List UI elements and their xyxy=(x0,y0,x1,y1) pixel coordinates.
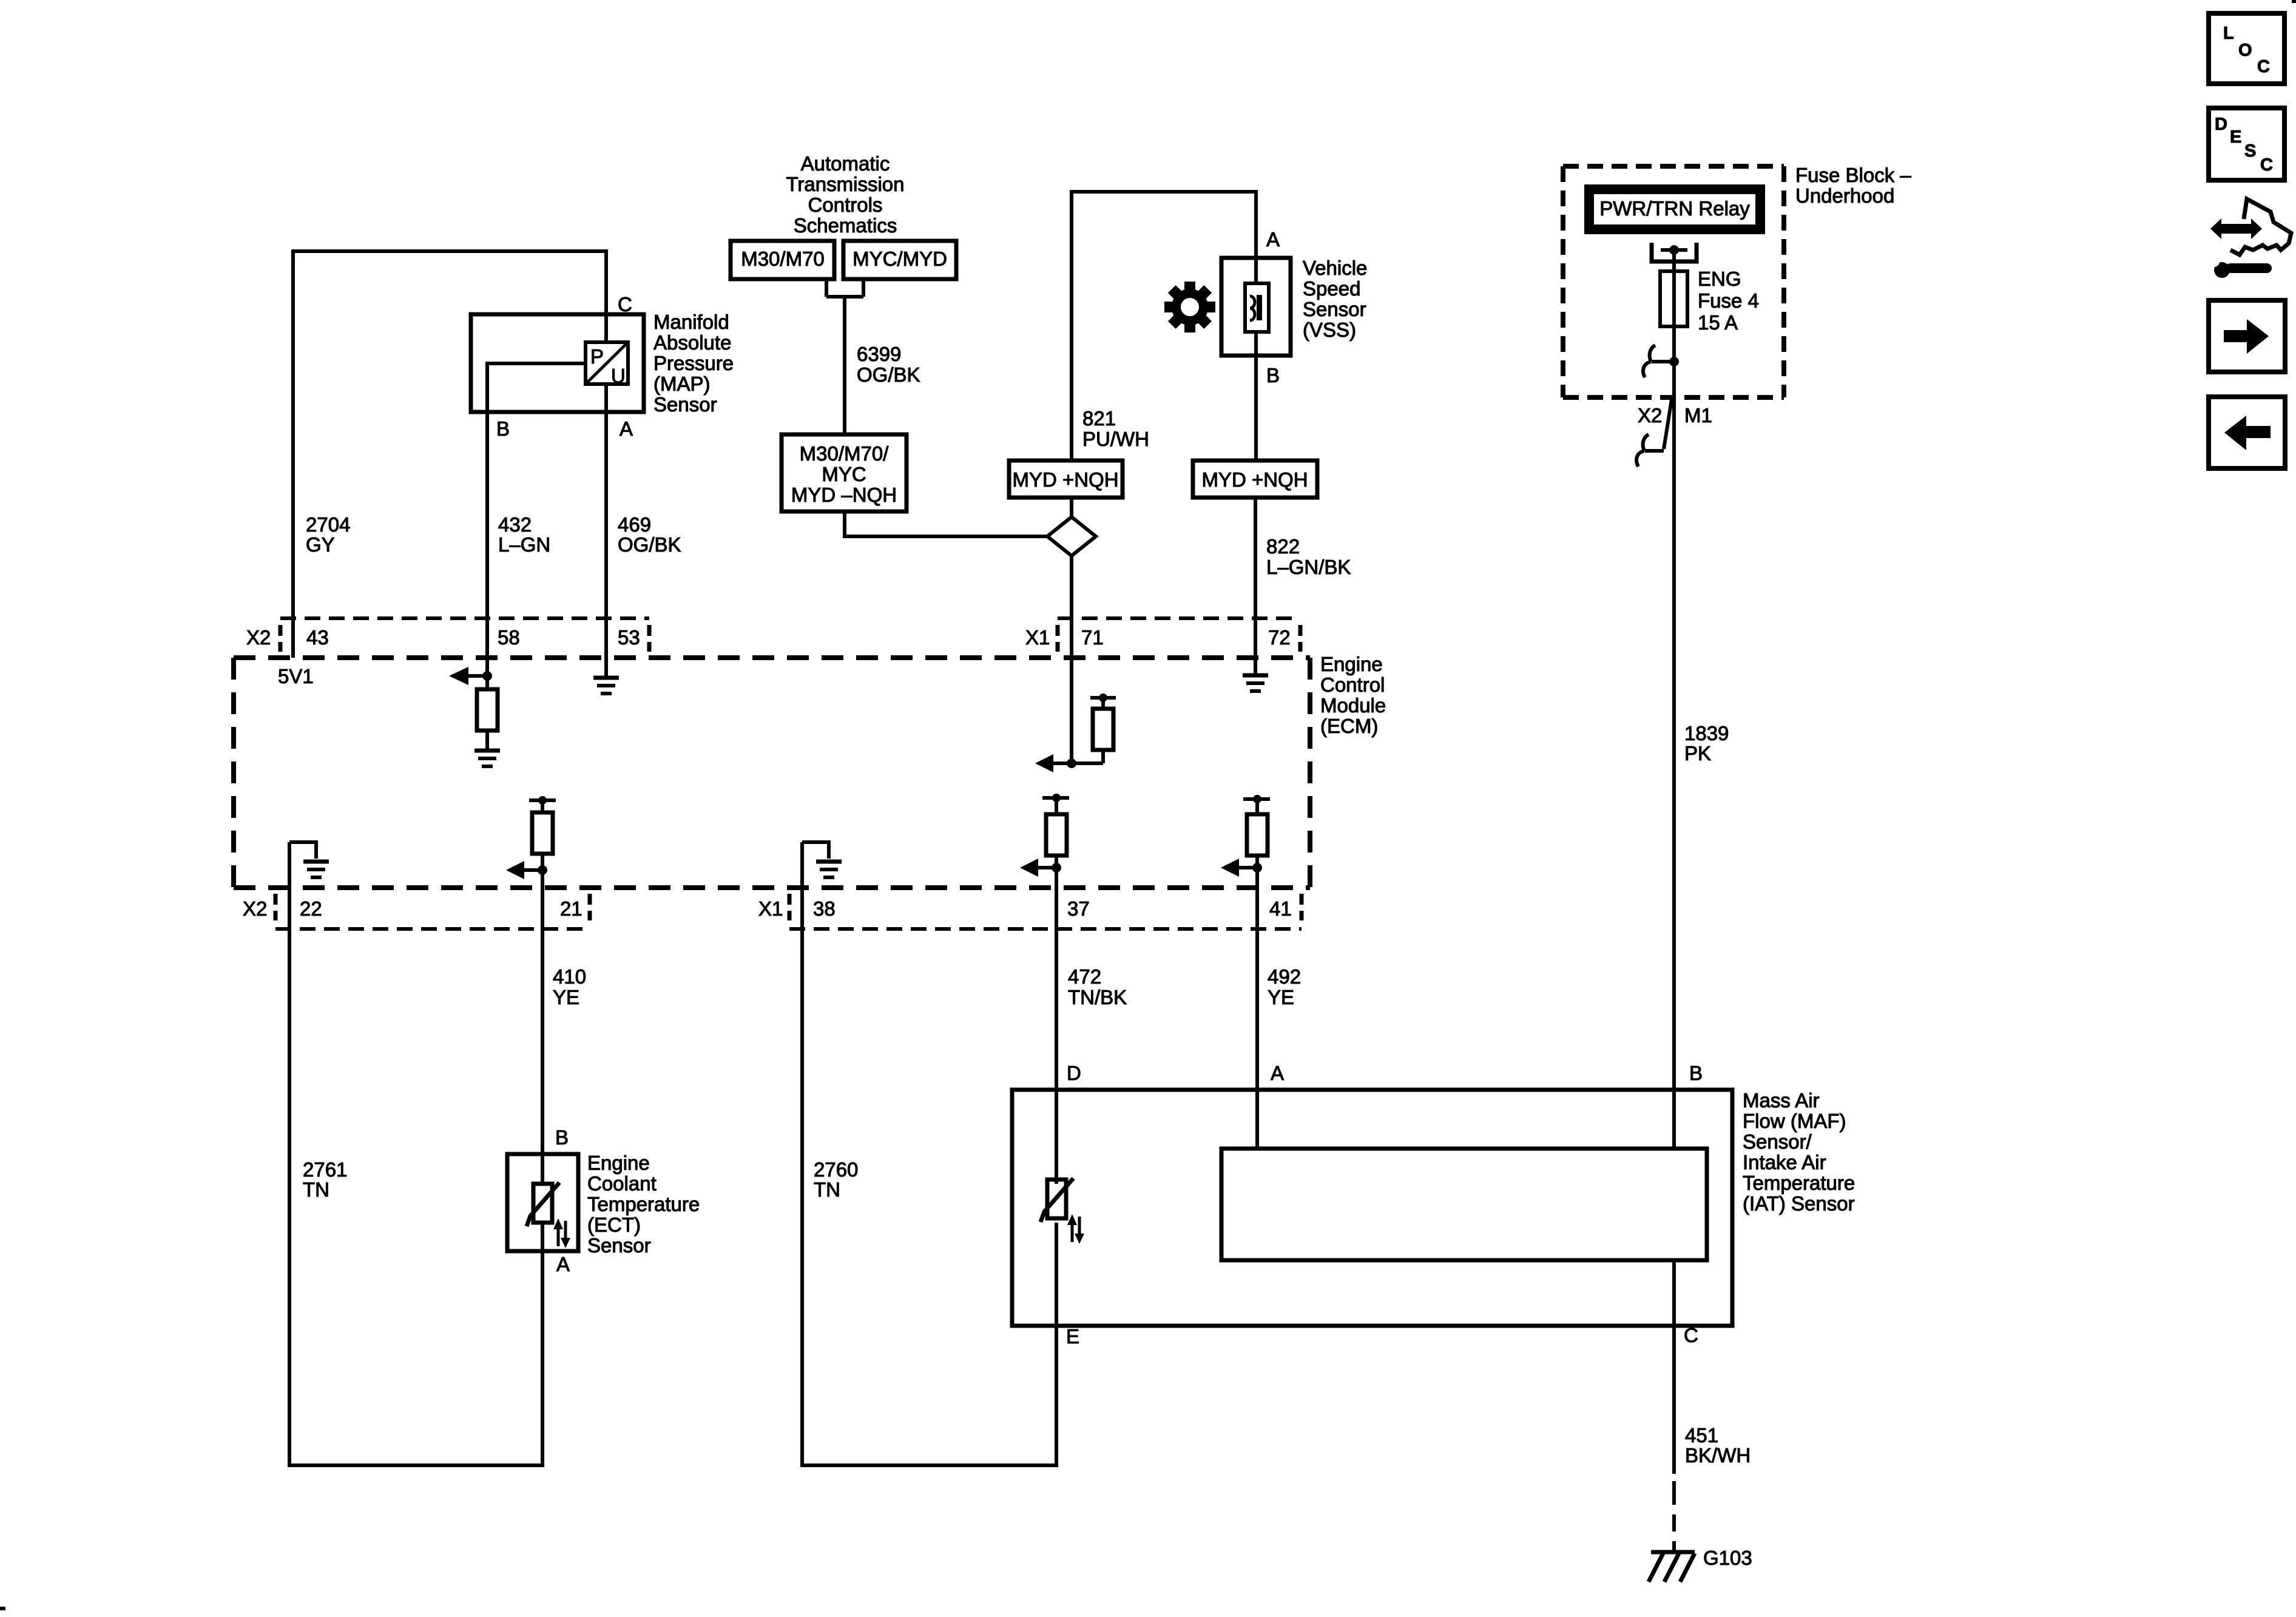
svg-text:A: A xyxy=(1271,1062,1284,1084)
svg-text:22: 22 xyxy=(300,897,322,920)
svg-text:PWR/TRN Relay: PWR/TRN Relay xyxy=(1599,197,1750,220)
svg-text:Sensor: Sensor xyxy=(587,1234,651,1257)
svg-text:2760: 2760 xyxy=(814,1158,858,1181)
svg-text:71: 71 xyxy=(1081,626,1104,649)
svg-text:OG/BK: OG/BK xyxy=(857,363,920,386)
svg-text:58: 58 xyxy=(498,626,520,649)
svg-text:410: 410 xyxy=(553,965,586,988)
svg-text:O: O xyxy=(2238,41,2252,60)
svg-text:1839: 1839 xyxy=(1684,722,1729,744)
svg-text:E: E xyxy=(1066,1325,1079,1348)
svg-text:MYD –NQH: MYD –NQH xyxy=(791,484,897,506)
svg-text:U: U xyxy=(611,365,626,387)
svg-text:Transmission: Transmission xyxy=(786,173,905,195)
svg-text:(VSS): (VSS) xyxy=(1303,319,1356,341)
svg-text:Temperature: Temperature xyxy=(587,1193,700,1215)
svg-text:M30/M70: M30/M70 xyxy=(741,248,825,270)
svg-text:37: 37 xyxy=(1067,897,1090,920)
svg-text:Control: Control xyxy=(1320,673,1385,696)
svg-text:PU/WH: PU/WH xyxy=(1082,428,1149,450)
svg-text:821: 821 xyxy=(1082,407,1116,430)
svg-text:Sensor: Sensor xyxy=(1303,298,1366,320)
svg-text:MYD +NQH: MYD +NQH xyxy=(1201,468,1308,491)
svg-text:Fuse 4: Fuse 4 xyxy=(1698,289,1759,312)
svg-text:B: B xyxy=(555,1126,569,1149)
svg-text:B: B xyxy=(496,417,510,440)
svg-text:M30/M70/: M30/M70/ xyxy=(800,442,890,465)
svg-text:Fuse Block –: Fuse Block – xyxy=(1795,164,1911,186)
svg-text:(ECT): (ECT) xyxy=(587,1214,641,1236)
svg-text:Vehicle: Vehicle xyxy=(1303,257,1367,279)
svg-text:15 A: 15 A xyxy=(1698,311,1738,334)
svg-text:TN: TN xyxy=(814,1178,840,1201)
svg-text:D: D xyxy=(2215,115,2227,134)
svg-text:Automatic: Automatic xyxy=(801,152,890,175)
svg-text:21: 21 xyxy=(560,897,582,920)
svg-text:Coolant: Coolant xyxy=(587,1172,657,1195)
svg-text:OG/BK: OG/BK xyxy=(618,533,681,556)
svg-text:C: C xyxy=(618,293,632,316)
svg-text:G103: G103 xyxy=(1703,1547,1752,1569)
svg-text:Underhood: Underhood xyxy=(1795,184,1894,207)
svg-text:M1: M1 xyxy=(1684,404,1712,427)
svg-text:C: C xyxy=(2260,155,2273,175)
svg-text:C: C xyxy=(1684,1324,1698,1346)
svg-text:P: P xyxy=(590,345,604,368)
svg-text:43: 43 xyxy=(306,626,329,649)
svg-text:Speed: Speed xyxy=(1303,277,1360,300)
svg-text:(MAP): (MAP) xyxy=(653,373,711,395)
svg-text:451: 451 xyxy=(1685,1424,1718,1447)
svg-text:Engine: Engine xyxy=(587,1152,650,1174)
svg-text:E: E xyxy=(2230,127,2241,147)
svg-text:Absolute: Absolute xyxy=(653,331,731,354)
svg-text:L–GN/BK: L–GN/BK xyxy=(1266,556,1351,578)
svg-text:YE: YE xyxy=(553,986,579,1008)
svg-text:53: 53 xyxy=(618,626,640,649)
svg-text:MYD +NQH: MYD +NQH xyxy=(1012,468,1118,491)
svg-text:X2: X2 xyxy=(243,897,267,920)
svg-text:YE: YE xyxy=(1268,986,1294,1008)
svg-text:Flow (MAF): Flow (MAF) xyxy=(1743,1110,1846,1132)
svg-text:Temperature: Temperature xyxy=(1743,1172,1855,1194)
svg-text:A: A xyxy=(556,1253,570,1275)
svg-text:A: A xyxy=(1266,228,1280,251)
svg-text:S: S xyxy=(2244,141,2256,161)
svg-text:Sensor: Sensor xyxy=(653,393,717,416)
svg-text:L–GN: L–GN xyxy=(498,533,550,556)
svg-text:PK: PK xyxy=(1684,742,1711,765)
svg-text:Controls: Controls xyxy=(808,194,883,216)
svg-text:X2: X2 xyxy=(1638,404,1662,427)
svg-text:A: A xyxy=(620,417,633,440)
svg-text:(IAT) Sensor: (IAT) Sensor xyxy=(1743,1192,1855,1215)
svg-text:Sensor/: Sensor/ xyxy=(1743,1130,1812,1153)
svg-text:Manifold: Manifold xyxy=(653,311,729,333)
svg-text:822: 822 xyxy=(1266,535,1300,558)
svg-text:X1: X1 xyxy=(758,897,783,920)
svg-text:Schematics: Schematics xyxy=(794,214,897,237)
svg-text:L: L xyxy=(2223,24,2234,43)
svg-text:C: C xyxy=(2257,57,2270,76)
svg-text:B: B xyxy=(1266,364,1280,387)
svg-text:MYC/MYD: MYC/MYD xyxy=(853,248,947,270)
svg-text:492: 492 xyxy=(1268,965,1301,988)
svg-text:X2: X2 xyxy=(246,626,271,649)
svg-text:Pressure: Pressure xyxy=(653,352,734,374)
svg-text:2761: 2761 xyxy=(303,1158,347,1181)
svg-text:GY: GY xyxy=(306,533,335,556)
svg-text:B: B xyxy=(1689,1062,1703,1084)
svg-text:(ECM): (ECM) xyxy=(1320,715,1378,737)
svg-text:ENG: ENG xyxy=(1698,268,1741,290)
svg-text:6399: 6399 xyxy=(857,343,901,365)
svg-text:TN/BK: TN/BK xyxy=(1068,986,1127,1008)
svg-text:Module: Module xyxy=(1320,694,1386,717)
svg-text:38: 38 xyxy=(813,897,836,920)
svg-text:2704: 2704 xyxy=(306,513,350,536)
svg-text:Engine: Engine xyxy=(1320,653,1383,675)
svg-text:Intake Air: Intake Air xyxy=(1743,1151,1826,1173)
svg-text:5V1: 5V1 xyxy=(278,665,314,687)
svg-text:MYC: MYC xyxy=(822,463,866,485)
svg-text:472: 472 xyxy=(1068,965,1101,988)
svg-text:Mass Air: Mass Air xyxy=(1743,1089,1820,1112)
svg-text:D: D xyxy=(1067,1062,1081,1084)
svg-text:72: 72 xyxy=(1268,626,1291,649)
svg-text:TN: TN xyxy=(303,1178,329,1201)
svg-text:BK/WH: BK/WH xyxy=(1685,1444,1751,1467)
svg-text:41: 41 xyxy=(1269,897,1292,920)
svg-text:X1: X1 xyxy=(1025,626,1050,649)
svg-text:469: 469 xyxy=(618,513,651,536)
svg-text:432: 432 xyxy=(498,513,532,536)
